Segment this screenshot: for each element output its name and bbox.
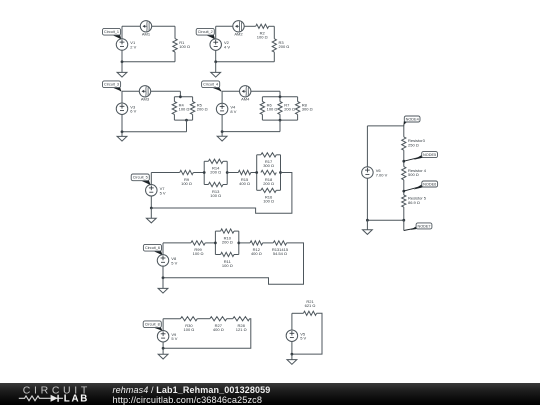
voltage source V6 7V (362, 167, 388, 179)
resistor R131415 54.54 (272, 241, 289, 256)
wire stub R13 left (204, 184, 208, 186)
wire stub R11 right (234, 254, 239, 256)
wire R9 to bracket1 (193, 172, 204, 174)
junction bracket1 right (226, 171, 229, 174)
resistor R4 100 (172, 102, 189, 115)
ground NODE circuit (363, 220, 373, 234)
wire to R21 (292, 312, 304, 314)
junction ground node left (366, 219, 369, 222)
wire stub R10 right (234, 230, 239, 232)
svg-text:5 V: 5 V (160, 190, 166, 195)
resistor R17 300 (261, 153, 276, 168)
svg-text:200 Ω: 200 Ω (210, 170, 221, 175)
label NODE4 (404, 116, 420, 126)
wire down to R1 (174, 26, 176, 38)
svg-text:200 Ω: 200 Ω (284, 107, 295, 112)
wire R30 to R27 (197, 318, 210, 320)
wire Resistor3 to Resistor4 (403, 150, 405, 166)
wire bracket1 left rail (203, 161, 205, 184)
wire V7 top (150, 173, 152, 185)
footer bar (0, 383, 540, 405)
wire to R15 (227, 172, 238, 174)
junction C1 ground node (121, 60, 124, 63)
svg-text:5 V: 5 V (171, 260, 177, 265)
wire to R99 (163, 242, 191, 244)
wire to Resistor3 (403, 126, 405, 137)
wire V3 top (121, 91, 123, 103)
wire V9 bottom (162, 342, 164, 349)
wire bottom rail (222, 131, 280, 133)
ammeter AM1 (140, 21, 151, 37)
junction bracket top (279, 95, 282, 98)
svg-text:LAB: LAB (64, 394, 89, 404)
resistor Resistor5 86.9 (402, 195, 427, 207)
junction bracket right (237, 242, 240, 245)
wire AM4 to corner (251, 90, 280, 92)
wire R1 bottom (174, 52, 176, 62)
svg-text:250 Ω: 250 Ω (408, 142, 419, 147)
ammeter AM2 (233, 21, 244, 37)
wire bracket left rail (214, 231, 216, 254)
wire bracket exit down (279, 120, 281, 132)
svg-text:2 V: 2 V (130, 45, 136, 50)
junction NODE7 node (402, 219, 405, 222)
resistor R15 400 (238, 170, 251, 186)
resistor R28 121 (233, 317, 250, 332)
svg-text:400 Ω: 400 Ω (239, 181, 250, 186)
wire to AM4 (222, 90, 239, 92)
CircuitLab logo (14, 383, 114, 409)
svg-text:100 Ω: 100 Ω (179, 44, 190, 49)
resistor R99 100 (191, 241, 205, 256)
label Circuit_5 (131, 174, 151, 185)
wire bracket1 right rail (226, 161, 228, 184)
wire stub R7 bottom (279, 114, 281, 120)
wire bracket exit down (186, 120, 188, 132)
wire stub R8 bottom (297, 114, 299, 120)
label Circuit_1 (103, 28, 122, 39)
voltage source V7 5V (146, 185, 166, 197)
svg-text:121 Ω: 121 Ω (236, 327, 247, 332)
wire V1 top (121, 26, 123, 39)
ground C2 (211, 62, 221, 77)
wire stub R16 left (257, 189, 261, 191)
label Circuit_8 (143, 321, 162, 331)
svg-text:Circuit_6: Circuit_6 (145, 246, 160, 250)
ammeter AM4 (240, 86, 251, 102)
junction C6 ground node (162, 276, 165, 279)
ground C4 (217, 132, 227, 141)
wire top rail (367, 125, 403, 127)
svg-text:AM2: AM2 (234, 32, 243, 37)
voltage source V8 5V (157, 255, 177, 267)
wire parallel top rail (174, 96, 192, 98)
svg-text:Circuit_5: Circuit_5 (133, 176, 148, 180)
junction C5 ground node (150, 207, 153, 210)
resistor R13 100 (208, 182, 223, 198)
svg-text:200 Ω: 200 Ω (222, 239, 233, 244)
resistor R3 200 (272, 39, 289, 52)
junction C8 ground node (162, 347, 165, 350)
wire bracket right rail (238, 231, 240, 254)
svg-text:100 Ω: 100 Ω (263, 199, 274, 204)
svg-text:NODE4: NODE4 (406, 117, 419, 121)
wire stub R11 left (215, 254, 220, 256)
wire down to bracket (179, 91, 181, 97)
svg-text:4 V: 4 V (224, 45, 230, 50)
ground C5 (146, 208, 156, 223)
wire bracket2 left rail (256, 155, 258, 191)
junction bracket bottom (279, 119, 282, 122)
voltage source V9 5V (157, 330, 177, 342)
svg-text:7.00 V: 7.00 V (376, 173, 388, 178)
wire V8 top (162, 243, 164, 255)
wire C5 return path (151, 173, 292, 214)
svg-text:100 Ω: 100 Ω (184, 327, 195, 332)
resistor R14 200 (208, 159, 223, 174)
wire stub R4 top (173, 97, 175, 102)
wire R27 to R28 (227, 318, 233, 320)
wire parallel top rail (262, 96, 297, 98)
wire stub R8 top (297, 97, 299, 102)
svg-text:AM4: AM4 (241, 97, 250, 102)
resistor R2 100 (256, 24, 269, 39)
wire R2 to corner (269, 25, 275, 27)
svg-text:200 Ω: 200 Ω (197, 107, 208, 112)
wire R3 bottom (273, 52, 275, 62)
wire Resistor5 bottom (403, 207, 405, 220)
wire stub R6 top (261, 97, 263, 102)
wire stub R13 right (223, 184, 227, 186)
ground V5 (287, 354, 297, 364)
logo resistor squiggle (19, 396, 63, 401)
label Circuit_2 (196, 28, 215, 39)
resistor R6 100 (260, 102, 277, 115)
resistor R30 100 (181, 317, 198, 332)
wire Resistor4 to Resistor5 (403, 180, 405, 195)
wire bottom rail (122, 131, 187, 133)
wire V2 bottom (215, 50, 217, 62)
ground C3 (117, 132, 127, 141)
ground C8 (158, 348, 168, 359)
svg-text:100 Ω: 100 Ω (257, 35, 268, 40)
voltage source V2 4V (210, 39, 230, 51)
wire V1 bottom (121, 50, 123, 62)
label Circuit_4 (202, 81, 222, 91)
wire to R30 (163, 318, 180, 320)
resistor R16 100 (261, 188, 276, 203)
wire V3 bottom (121, 114, 123, 132)
svg-text:6 V: 6 V (130, 109, 136, 114)
label NODE6 (404, 181, 438, 191)
resistor R8 300 (296, 102, 313, 115)
wire V2 top (215, 26, 217, 39)
svg-text:200 Ω: 200 Ω (263, 181, 274, 186)
label Circuit_3 (103, 81, 122, 91)
wire C6 return path (163, 243, 304, 284)
svg-text:300 Ω: 300 Ω (302, 107, 313, 112)
wire parallel bottom rail (262, 119, 297, 121)
wire V6 bottom (366, 178, 368, 220)
svg-text:86.9 Ω: 86.9 Ω (408, 200, 420, 205)
svg-text:NODE6: NODE6 (423, 182, 436, 186)
junction NODE5 (402, 160, 405, 163)
resistor R9 100 (180, 170, 194, 186)
wire left down to V6 (366, 126, 368, 167)
junction C3 ground node (121, 130, 124, 133)
label NODE7 (404, 223, 432, 231)
wire stub R10 left (215, 230, 220, 232)
ammeter AM3 (139, 86, 150, 102)
wire AM3 to corner (151, 90, 181, 92)
junction NODE6 (402, 190, 405, 193)
wire to AM2 (216, 25, 233, 27)
svg-text:NODE5: NODE5 (423, 153, 436, 157)
wire stub R7 top (279, 97, 281, 102)
voltage source V1 2V (116, 39, 136, 51)
svg-text:100 Ω: 100 Ω (179, 107, 190, 112)
ground C1 (117, 62, 127, 77)
wire AM2 to R2 (244, 25, 256, 27)
label Circuit_6 (143, 244, 162, 255)
wire bracket2 right rail (280, 155, 282, 191)
svg-text:100 Ω: 100 Ω (222, 263, 233, 268)
svg-text:300 Ω: 300 Ω (263, 163, 274, 168)
junction V5 ground node (291, 353, 294, 356)
ground C6 (158, 278, 168, 293)
junction bracket2 right (279, 171, 282, 174)
wire V5 left up (291, 313, 293, 330)
junction bracket left (214, 242, 217, 245)
wire V8 bottom (162, 266, 164, 278)
svg-text:Circuit_8: Circuit_8 (145, 323, 160, 327)
wire R15 to bracket2 (251, 172, 257, 174)
resistor R27 400 (210, 317, 227, 332)
svg-text:400 Ω: 400 Ω (213, 327, 224, 332)
svg-text:Circuit_1: Circuit_1 (104, 30, 119, 34)
junction bracket1 left (203, 171, 206, 174)
wire C8 return path (163, 319, 251, 349)
wire AM1 to R1 (152, 25, 175, 27)
wire down to R3 (273, 26, 275, 38)
resistor R5 200 (190, 102, 207, 115)
resistor R12 400 (250, 241, 263, 256)
wire stub R5 bottom (192, 114, 194, 120)
wire to AM1 (122, 25, 140, 27)
wire to R9 (151, 172, 179, 174)
wire stub R4 bottom (173, 114, 175, 120)
svg-text:621 Ω: 621 Ω (305, 303, 316, 308)
voltage source V4 8V (216, 103, 236, 115)
wire parallel bottom rail (174, 119, 192, 121)
voltage source V3 6V (116, 103, 136, 115)
wire stub R5 top (192, 97, 194, 102)
voltage source V5 5V (286, 330, 306, 342)
resistor R1 100 (173, 39, 190, 52)
svg-text:AM1: AM1 (142, 32, 151, 37)
wire bottom rail (216, 61, 275, 63)
wire V7 bottom (150, 196, 152, 208)
resistor R10 200 (221, 229, 234, 245)
svg-text:8 V: 8 V (230, 109, 236, 114)
svg-text:NODE7: NODE7 (417, 224, 430, 228)
wire bottom rail (367, 219, 403, 221)
svg-text:200 Ω: 200 Ω (279, 44, 290, 49)
wire bottom rail (122, 61, 175, 63)
wire down to bracket (279, 91, 281, 97)
svg-text:AM3: AM3 (141, 97, 150, 102)
resistor Resistor4 500 (402, 167, 427, 180)
wire V4 top (221, 91, 223, 103)
junction bracket bottom (185, 119, 188, 122)
resistor R7 200 (278, 102, 295, 115)
label NODE5 (404, 152, 438, 162)
svg-text:Circuit_2: Circuit_2 (198, 30, 213, 34)
svg-text:5 V: 5 V (300, 336, 306, 341)
svg-text:54.54 Ω: 54.54 Ω (273, 251, 287, 256)
wire NODE7 stub (403, 220, 405, 230)
junction C4 ground node (221, 130, 224, 133)
svg-text:100 Ω: 100 Ω (210, 193, 221, 198)
resistor R11 100 (221, 252, 234, 267)
svg-text:Circuit_4: Circuit_4 (203, 83, 218, 87)
junction bracket top (179, 95, 182, 98)
junction C2 ground node (214, 60, 217, 63)
svg-text:100 Ω: 100 Ω (181, 181, 192, 186)
wire stub R14 right (223, 160, 227, 162)
wire R12 to R131415 (263, 242, 274, 244)
junction bracket2 left (255, 171, 258, 174)
svg-text:400 Ω: 400 Ω (251, 251, 262, 256)
wire stub R17 left (257, 154, 261, 156)
resistor R18 200 (261, 170, 276, 186)
svg-text:Circuit_3: Circuit_3 (104, 83, 119, 87)
wire R99 to bracket (205, 242, 215, 244)
resistor Resistor3 250 (402, 137, 426, 150)
svg-text:500 Ω: 500 Ω (408, 172, 419, 177)
wire stub R14 left (204, 160, 208, 162)
svg-text:100 Ω: 100 Ω (193, 251, 204, 256)
wire stub R16 right (276, 189, 280, 191)
svg-text:5 V: 5 V (171, 336, 177, 341)
svg-text:100 Ω: 100 Ω (267, 107, 278, 112)
resistor R21 621 (303, 299, 316, 316)
wire V9 top (162, 319, 164, 331)
wire to AM3 (122, 90, 139, 92)
wire R21 return path (292, 313, 322, 354)
wire stub R17 right (276, 154, 280, 156)
wire stub R6 bottom (261, 114, 263, 120)
wire V4 bottom (221, 114, 223, 131)
wire to R12 (239, 242, 250, 244)
wire V5 bottom (291, 341, 293, 354)
logo diode (51, 395, 58, 402)
